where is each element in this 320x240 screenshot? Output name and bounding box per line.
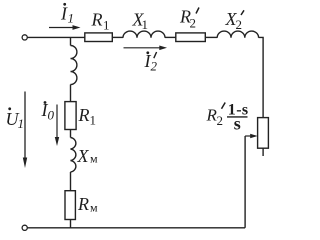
label X1 (top): [132, 10, 149, 33]
svg-text:R: R: [78, 105, 90, 125]
svg-text:м: м: [90, 152, 98, 166]
svg-text:2: 2: [151, 59, 158, 74]
svg-text:X: X: [77, 146, 90, 166]
label X2' (top): [225, 9, 245, 32]
inductor X1 (vertical, shunt branch): [71, 46, 77, 85]
wire: Rm to bottom wire: [70, 220, 72, 228]
svg-text:2: 2: [236, 17, 243, 32]
current arrow I0: [55, 105, 59, 147]
label R2' (top): [179, 7, 199, 31]
svg-text:м: м: [90, 201, 98, 215]
label R1 (vertical branch): [78, 105, 97, 128]
inductor X1 (stator leakage): [123, 31, 165, 38]
wire: R2' to X2' coil: [205, 36, 217, 38]
wire: X1 coil to resistor R2': [165, 36, 176, 38]
svg-text:R: R: [77, 194, 89, 214]
svg-text:1: 1: [90, 113, 97, 128]
wire: top terminal to resistor R1: [27, 36, 85, 38]
label U1: [6, 107, 25, 131]
voltage arrow U1: [23, 92, 27, 169]
svg-text:s: s: [234, 114, 241, 134]
svg-text:1: 1: [68, 11, 75, 26]
resistor R2': [176, 33, 206, 42]
resistor R1: [85, 33, 113, 42]
svg-text:2: 2: [217, 113, 224, 128]
resistor R2'(1-s)/s load: [258, 118, 269, 149]
inductor Xm (magnetizing): [71, 138, 76, 173]
current arrow I2': [124, 46, 168, 51]
label I1: [60, 3, 74, 26]
wire: Xm coil to resistor Rm: [70, 172, 72, 191]
label Xm: [77, 146, 99, 166]
current arrow I1: [49, 25, 81, 30]
resistor R1 (vertical, shunt branch): [65, 102, 76, 130]
wire: wiper vertical down to bottom wire: [244, 136, 246, 228]
wire: X1 vertical coil to resistor R1 vertical: [70, 85, 72, 102]
wire: R1 to X1 coil: [112, 36, 123, 38]
label R2'(1-s)/s: [206, 102, 249, 134]
wire: stub below load resistor: [262, 148, 264, 156]
wiper arrow into load resistor: [245, 134, 258, 138]
svg-text:R: R: [91, 10, 103, 30]
terminal: top input: [22, 35, 27, 40]
wire: bottom return: [27, 227, 245, 229]
svg-text:2: 2: [190, 16, 197, 31]
inductor X2' (rotor leakage): [217, 31, 258, 38]
label Rm: [77, 194, 98, 215]
svg-text:1: 1: [103, 18, 110, 33]
resistor Rm (magnetizing): [65, 191, 75, 220]
label I0: [41, 100, 55, 123]
wire: junction to vertical X1 coil: [70, 37, 72, 45]
label R1 (top): [91, 10, 110, 33]
svg-text:0: 0: [48, 108, 55, 123]
svg-text:1: 1: [142, 17, 149, 32]
wire: R1 vertical to Xm coil: [70, 130, 72, 138]
label I2': [144, 51, 158, 74]
svg-text:1: 1: [18, 116, 25, 131]
wire: X2' to top-right corner and down to load resistor: [259, 37, 264, 117]
terminal: bottom input: [22, 225, 27, 230]
